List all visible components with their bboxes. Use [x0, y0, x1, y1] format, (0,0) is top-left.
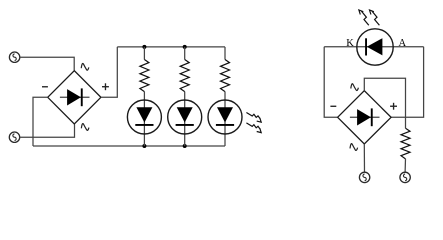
wire branch 2 (top rail to resistor R2) — [184, 47, 186, 60]
light arrows of LED D3 — [246, 113, 261, 133]
diode inside B2 — [350, 108, 380, 126]
wire V1 to bridge B1 AC input (top) — [20, 57, 74, 70]
label minus (B1) — [42, 86, 48, 87]
wire branch 2 (resistor R2 to bottom rail, passes through LED D2) — [184, 92, 186, 146]
diode inside B1 — [60, 88, 90, 106]
label minus (B2) — [330, 106, 336, 107]
junction dot bottom rail / branch 2 — [183, 144, 187, 148]
junction dot top rail / branch 1 — [142, 45, 146, 49]
wire branch 3 (top rail corner to resistor R3) — [224, 47, 226, 60]
AC tilde at B2 top corner — [351, 84, 359, 91]
wire branch 3 (resistor R3 to bottom rail, passes through LED D3) — [224, 92, 226, 146]
wire B2 AC input (top corner) up and over to resistor R4, crosses plus wire without junction — [364, 78, 405, 128]
label plus (B2) — [390, 103, 397, 110]
AC tilde at B2 bottom corner — [350, 144, 358, 151]
wire through LED D4 (cathode rail to anode rail) — [324, 46, 423, 48]
LED D4 — [357, 29, 393, 65]
junction dot top rail / branch 2 — [183, 45, 187, 49]
resistor R3 — [221, 60, 230, 92]
wire LED D4 cathode to bridge B2 minus — [324, 47, 337, 118]
bridge rectifier B2 (diamond) — [338, 91, 392, 144]
bottom rail wire — [33, 145, 225, 147]
wire B1 minus output to bottom rail — [33, 97, 48, 146]
resistor R1 — [140, 60, 149, 92]
svg-text:K: K — [346, 38, 354, 49]
junction dot bottom rail / branch 1 — [142, 144, 146, 148]
bridge rectifier B1 (diamond) — [48, 71, 101, 124]
wire LED D4 anode to bridge B2 plus (crosses resistor wire, no junction) — [391, 47, 424, 118]
light arrows of LED D4 — [359, 10, 380, 25]
LED D2 — [168, 100, 202, 134]
label plus (B1) — [102, 83, 109, 90]
ac source V3 — [359, 172, 369, 182]
AC tilde at B1 top corner — [81, 63, 89, 70]
wire branch 1 (top rail to resistor R1) — [143, 47, 145, 60]
wire branch 1 (resistor R1 to bottom rail, passes through LED D1) — [143, 92, 145, 146]
LED D1 — [127, 100, 161, 134]
wire B2 AC input (bottom corner) to ac source V3 — [363, 144, 365, 172]
ac source V4 — [400, 172, 410, 182]
resistor R2 — [180, 60, 189, 92]
wire resistor R4 to ac source V4 — [404, 159, 406, 172]
ac source V1 — [9, 52, 19, 62]
top rail wire — [117, 46, 225, 48]
svg-text:A: A — [399, 38, 407, 49]
ac source V2 — [9, 132, 19, 142]
wire V2 to bridge B1 AC input (bottom), crosses minus wire without junction — [20, 124, 75, 137]
AC tilde at B1 bottom corner — [81, 124, 89, 131]
wire B1 plus output to top rail — [101, 47, 117, 97]
resistor R4 — [401, 128, 410, 159]
LED D3 — [208, 100, 242, 134]
